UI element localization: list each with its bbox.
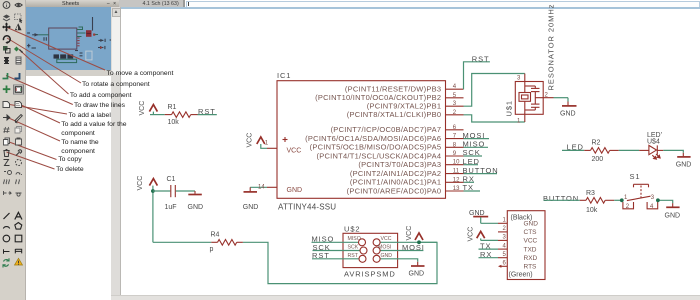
svg-text:GND: GND xyxy=(409,271,425,278)
svg-text:(PCINT2/AIN1/ADC2)PA2: (PCINT2/AIN1/ADC2)PA2 xyxy=(350,169,441,178)
wire C1 to GND xyxy=(176,190,195,192)
resonator U$1 xyxy=(515,74,553,123)
wire TX xyxy=(464,190,481,192)
wire RX net xyxy=(479,257,499,259)
ground at pin14 xyxy=(249,187,251,191)
row14: ratsnest + redraw xyxy=(4,160,10,166)
svg-text:TXD: TXD xyxy=(524,246,537,253)
wire MOSI net xyxy=(380,250,423,252)
wire S1 to GND xyxy=(658,200,673,203)
RTS arrow xyxy=(498,265,501,268)
IC1 right pin stubs xyxy=(446,89,464,191)
svg-text:MISO: MISO xyxy=(348,236,361,242)
junction at ISP VCC xyxy=(417,240,421,244)
resistor R4 xyxy=(211,241,217,243)
svg-text:11: 11 xyxy=(453,169,460,175)
resistor R2 xyxy=(584,149,590,151)
line to rotate xyxy=(7,38,81,83)
row4: rotate xyxy=(3,36,10,43)
svg-text:SCK: SCK xyxy=(348,245,359,251)
svg-text:IC1: IC1 xyxy=(277,71,291,80)
svg-text:S1: S1 xyxy=(630,172,641,181)
preview thumbnail canvas xyxy=(26,7,111,70)
svg-text:10k: 10k xyxy=(586,207,598,214)
svg-text:GND: GND xyxy=(665,213,681,220)
svg-text:U$4: U$4 xyxy=(647,139,660,146)
IC1 ATTINY44 box xyxy=(277,81,446,199)
ground at LED xyxy=(682,153,684,157)
line to add value xyxy=(19,104,60,123)
FTDI connector xyxy=(507,211,545,280)
line to add label xyxy=(7,104,68,114)
svg-text:3: 3 xyxy=(517,76,521,82)
svg-text:RXD: RXD xyxy=(524,255,538,262)
svg-text:SCK: SCK xyxy=(463,148,481,157)
svg-text:BUTTON: BUTTON xyxy=(463,166,499,175)
wire resonator to GND xyxy=(554,97,569,99)
svg-text:RST: RST xyxy=(198,107,216,116)
row8: add plus + add part (pressed) xyxy=(3,86,11,94)
svg-text:GND: GND xyxy=(676,162,692,169)
svg-text:VCC: VCC xyxy=(524,238,538,245)
svg-text:LED: LED xyxy=(463,157,480,166)
svg-text:AVRISPSMD: AVRISPSMD xyxy=(344,269,396,278)
canvas top line xyxy=(121,7,700,8)
wire TX net xyxy=(479,248,499,250)
wire to C1 xyxy=(153,190,170,192)
VCC symbol at FTDI xyxy=(477,231,485,238)
ground at S1 xyxy=(672,203,674,207)
svg-text:R4: R4 xyxy=(211,231,220,238)
wire R4 row xyxy=(153,241,211,243)
svg-text:(Green): (Green) xyxy=(509,272,533,279)
svg-text:RST: RST xyxy=(312,251,330,260)
LED U$4 xyxy=(639,149,649,151)
pin 14 stub xyxy=(267,186,277,188)
svg-text:VCC: VCC xyxy=(287,147,302,154)
row20: circle + rect xyxy=(3,235,10,242)
svg-text:(PCINT3/T0/ADC3)PA3: (PCINT3/T0/ADC3)PA3 xyxy=(358,160,441,169)
FTDI internal pin names xyxy=(524,221,539,271)
svg-text:TX: TX xyxy=(463,183,474,192)
svg-text:MOSI: MOSI xyxy=(378,245,391,251)
svg-text:3: 3 xyxy=(503,235,507,241)
row9: name tag + value tag xyxy=(3,102,22,108)
command caret xyxy=(188,2,189,7)
svg-text:R3: R3 xyxy=(586,190,595,197)
svg-text:ATTINY44-SSU: ATTINY44-SSU xyxy=(278,203,336,212)
svg-text:1: 1 xyxy=(517,118,521,124)
svg-text:10: 10 xyxy=(453,160,460,166)
svg-text:C1: C1 xyxy=(167,176,176,183)
svg-text:RTS: RTS xyxy=(524,264,538,271)
wire BUTTON xyxy=(464,173,498,175)
svg-text:200: 200 xyxy=(592,156,604,163)
ISP connector U$2 xyxy=(343,233,398,267)
resistor R3 xyxy=(580,199,586,201)
svg-text:RST: RST xyxy=(472,54,490,63)
row6: filled + outline stack xyxy=(4,57,9,64)
svg-text:(PCINT8/XTAL1/CLKI)PB0: (PCINT8/XTAL1/CLKI)PB0 xyxy=(347,110,442,119)
svg-text:RX: RX xyxy=(480,250,492,259)
row17: arrows + lock xyxy=(4,191,12,195)
wire LED net xyxy=(562,149,584,151)
row7: net wire + bus wire xyxy=(3,73,8,79)
wire XTAL1 to resonator xyxy=(464,74,525,107)
VCC symbol at ISP xyxy=(415,233,423,240)
line to delete xyxy=(7,152,55,169)
svg-text:U$2: U$2 xyxy=(344,225,360,234)
svg-text:(PCINT6/OC1A/SDA/MOSI/ADC6)PA6: (PCINT6/OC1A/SDA/MOSI/ADC6)PA6 xyxy=(305,134,441,143)
svg-text:12: 12 xyxy=(453,177,460,183)
svg-text:MISO: MISO xyxy=(463,140,486,149)
svg-text:R2: R2 xyxy=(592,139,601,146)
svg-text:RST: RST xyxy=(348,253,359,259)
ground at ISP xyxy=(417,262,419,266)
wire VCC row xyxy=(380,241,437,243)
wire pin14 to GND xyxy=(250,186,267,188)
ISP pads xyxy=(359,239,381,262)
svg-text:1: 1 xyxy=(265,140,269,146)
svg-text:BUTTON: BUTTON xyxy=(543,194,579,203)
svg-text:(PCINT4/T1/SCL/USCK/ADC4)PA4: (PCINT4/T1/SCL/USCK/ADC4)PA4 xyxy=(316,151,441,160)
wire SCK xyxy=(464,155,483,157)
svg-text:(PCINT7/ICP/OC0B/ADC7)PA7: (PCINT7/ICP/OC0B/ADC7)PA7 xyxy=(331,125,442,134)
row16: split icons xyxy=(4,180,10,185)
svg-text:10k: 10k xyxy=(168,119,180,126)
row15: smash + a xyxy=(4,171,12,175)
wire R2 to LED xyxy=(619,149,639,151)
FTDI pin numbers xyxy=(503,218,507,267)
row22: erc + warning xyxy=(3,258,9,267)
wire BUTTON net xyxy=(544,199,580,201)
LED arrows xyxy=(652,154,660,159)
wire LED xyxy=(464,164,479,166)
ground at resonator xyxy=(567,102,569,106)
resistor R1 xyxy=(165,114,172,116)
row13: delete + wrench xyxy=(3,150,9,157)
row10: pin + polygon xyxy=(3,115,10,120)
svg-text:(PCINT0/AREF/ADC0)PA0: (PCINT0/AREF/ADC0)PA0 xyxy=(347,186,442,195)
preview window title bar xyxy=(26,0,120,7)
wire GND row xyxy=(380,259,418,262)
command field xyxy=(186,1,700,8)
svg-text:GND: GND xyxy=(381,253,393,259)
junction xyxy=(151,189,155,193)
svg-text:1: 1 xyxy=(503,218,507,224)
row5: group + glue xyxy=(3,46,8,51)
IC1 right pin numbers xyxy=(453,84,460,192)
line to draw lines xyxy=(6,76,73,105)
svg-text:2: 2 xyxy=(503,226,507,232)
wire RST net xyxy=(312,258,359,260)
svg-text:VCC: VCC xyxy=(406,226,413,241)
window tab xyxy=(119,0,185,7)
annotation texts xyxy=(107,69,174,78)
svg-text:GND: GND xyxy=(560,111,576,118)
row19: arc + polygon xyxy=(3,227,9,229)
svg-text:p: p xyxy=(210,246,214,253)
wire R4 to loop xyxy=(243,242,437,283)
svg-text:VCC: VCC xyxy=(381,236,392,242)
toolbar icons xyxy=(2,2,24,268)
wire XTAL2 to resonator xyxy=(464,115,525,122)
svg-text:(PCINT1/AIN0/ADC1)PA1: (PCINT1/AIN0/ADC1)PA1 xyxy=(350,178,441,187)
svg-text:MOSI: MOSI xyxy=(402,243,425,252)
S1 junction dots xyxy=(620,198,624,202)
wire MOSI xyxy=(464,138,490,140)
horizontal scrollbar strip xyxy=(111,295,700,300)
line to add component xyxy=(19,50,69,95)
VCC symbol at C1 xyxy=(149,179,157,186)
svg-text:(PCINT5/OC1B/MISO/DO/ADC5)PA5: (PCINT5/OC1B/MISO/DO/ADC5)PA5 xyxy=(310,143,442,152)
svg-text:14: 14 xyxy=(258,184,265,190)
svg-text:GND: GND xyxy=(287,187,303,194)
switch S1 xyxy=(623,184,658,209)
preview window bottom bar xyxy=(26,70,121,76)
IC1 right pin labels xyxy=(305,85,441,196)
IC1 left: VCC symbol xyxy=(257,137,265,144)
wire VCC down to R4 xyxy=(152,186,154,243)
wire VCC to pin1 xyxy=(261,144,267,148)
capacitor C1 xyxy=(170,185,172,197)
svg-text:R1: R1 xyxy=(168,104,177,111)
svg-text:RX: RX xyxy=(463,175,475,184)
svg-text:3: 3 xyxy=(651,195,655,201)
ground at C1 xyxy=(194,191,196,194)
wire R3 to S1 xyxy=(614,199,622,201)
row21: dimension + bus tool xyxy=(4,249,10,253)
wire RST net xyxy=(464,62,490,89)
svg-text:VCC: VCC xyxy=(139,101,146,116)
VCC wire to FTDI xyxy=(480,238,482,240)
pin 1 stub xyxy=(267,147,277,149)
wire net RST xyxy=(198,114,217,116)
row1: info + eye xyxy=(3,2,22,9)
row18: line + text xyxy=(4,213,10,219)
line to copy xyxy=(7,141,57,160)
toolbar xyxy=(0,0,26,300)
wire LED to GND xyxy=(663,150,683,152)
line to move xyxy=(6,27,105,70)
svg-text:1uF: 1uF xyxy=(165,204,177,211)
wire RX xyxy=(464,181,475,183)
svg-text:13: 13 xyxy=(453,186,460,192)
line to name xyxy=(7,117,61,141)
row3: move + mirror xyxy=(3,24,10,31)
svg-text:VCC: VCC xyxy=(468,227,475,242)
FTDI pin stubs xyxy=(498,223,507,266)
svg-text:VCC: VCC xyxy=(137,176,144,191)
wire SCK net xyxy=(313,250,360,252)
svg-text:CTS: CTS xyxy=(524,229,538,236)
svg-text:GND: GND xyxy=(188,204,204,211)
svg-text:MOSI: MOSI xyxy=(463,131,486,140)
IC1 plus mark xyxy=(283,137,288,142)
wire VCC to R1 xyxy=(150,114,165,116)
svg-text:4: 4 xyxy=(503,243,507,249)
svg-text:GND: GND xyxy=(524,221,539,228)
svg-text:5: 5 xyxy=(503,252,507,258)
row12: copy + paste xyxy=(4,138,10,145)
net wires on IC right xyxy=(464,62,525,191)
svg-text:GND: GND xyxy=(243,204,259,211)
svg-text:6: 6 xyxy=(503,261,507,267)
row2: layers + select xyxy=(3,15,10,19)
svg-text:U$1: U$1 xyxy=(505,100,514,116)
wire MISO xyxy=(464,146,489,148)
row11: junction + sheets xyxy=(4,127,10,133)
annotation lines xyxy=(6,27,105,169)
svg-text:RESONATOR 20MHz: RESONATOR 20MHz xyxy=(547,4,556,91)
VCC symbol at R1 xyxy=(149,105,157,112)
wire MISO net xyxy=(312,241,359,243)
vertical scrollbar strip xyxy=(111,7,121,300)
svg-text:VCC: VCC xyxy=(247,133,254,148)
thumbnail mini schematic xyxy=(27,17,112,63)
